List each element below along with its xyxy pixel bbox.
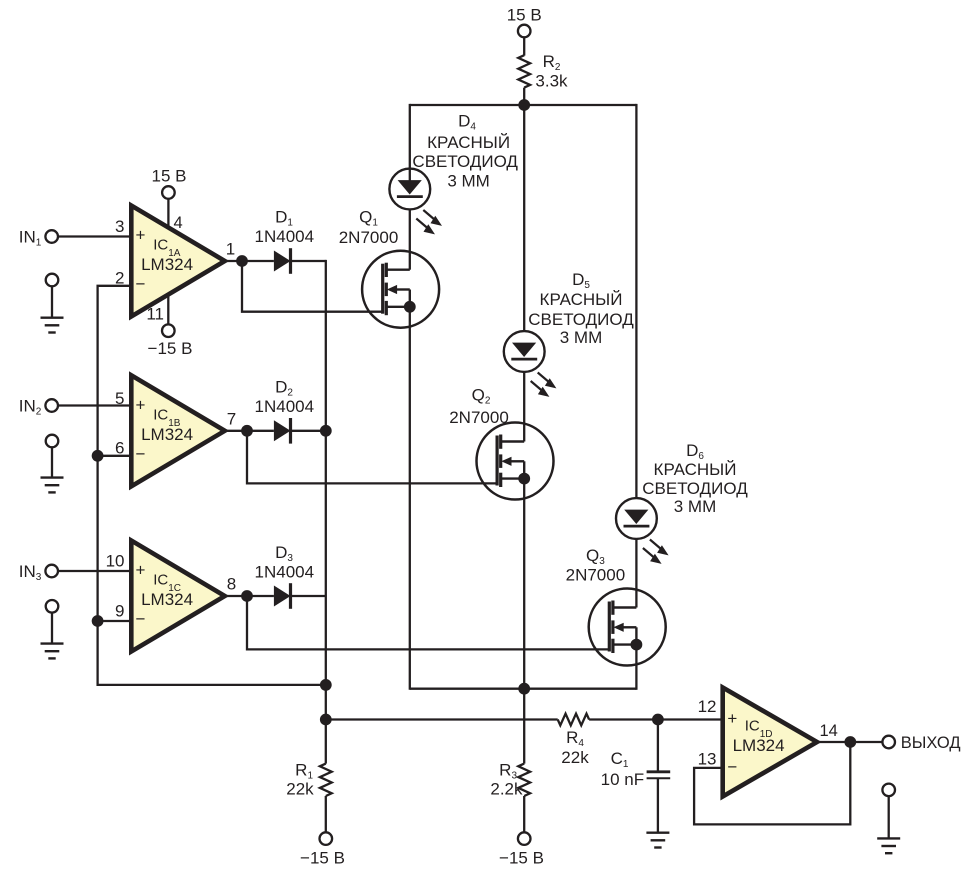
svg-text:11: 11 xyxy=(146,305,164,324)
node sources junction R3 xyxy=(518,683,530,695)
pin 12 label xyxy=(698,697,717,716)
ground terminal below IN3 xyxy=(46,600,59,644)
pin 14 label xyxy=(820,722,838,740)
svg-text:10: 10 xyxy=(106,552,125,571)
svg-text:СВЕТОДИОД: СВЕТОДИОД xyxy=(642,479,748,498)
svg-text:LM324: LM324 xyxy=(733,736,785,755)
pin 1 label xyxy=(226,240,235,259)
svg-text:СВЕТОДИОД: СВЕТОДИОД xyxy=(528,310,634,329)
label D6 xyxy=(686,441,704,462)
op-amp U1 IC1D xyxy=(723,688,817,797)
label D2 xyxy=(275,377,293,398)
diode D1 xyxy=(274,248,291,274)
LED D6 xyxy=(616,498,669,564)
svg-text:15 В: 15 В xyxy=(507,6,542,25)
label D4 3MM xyxy=(447,172,490,191)
node input terminal IN3 xyxy=(19,562,58,583)
svg-text:3: 3 xyxy=(115,217,124,236)
wire IC1A inverting feedback bus xyxy=(98,286,326,685)
pin 2 label xyxy=(115,268,124,287)
wire pin 4 supply xyxy=(167,199,169,229)
wire R2 to node xyxy=(523,88,525,105)
svg-text:+: + xyxy=(136,561,146,580)
svg-text:3 ММ: 3 ММ xyxy=(560,328,603,347)
svg-text:14: 14 xyxy=(820,722,838,740)
wire node to LED D5 xyxy=(523,105,525,331)
pin 3 label xyxy=(115,217,124,236)
svg-text:15 В: 15 В xyxy=(152,167,187,186)
svg-text:13: 13 xyxy=(698,749,717,768)
wire R4 to IC1D + xyxy=(589,718,723,720)
svg-text:КРАСНЫЙ: КРАСНЫЙ xyxy=(654,460,737,479)
wire output to D1 xyxy=(242,260,274,262)
diode D2 xyxy=(274,418,291,444)
wire feedback to IC1B - xyxy=(98,455,132,457)
label D4 KRASNYJ xyxy=(427,133,510,152)
svg-text:1N4004: 1N4004 xyxy=(255,397,315,416)
pin 11 label xyxy=(146,305,164,324)
svg-text:LM324: LM324 xyxy=(141,590,193,609)
node input terminal IN1 xyxy=(19,227,58,248)
svg-text:1N4004: 1N4004 xyxy=(255,563,315,582)
wire Q2 source to rail xyxy=(523,479,525,689)
pin 10 label xyxy=(106,552,125,571)
wire gate drop Q2 xyxy=(247,431,497,484)
transistor Q1 xyxy=(362,251,439,328)
node bus output junction xyxy=(320,714,332,726)
ground symbol IN3 xyxy=(41,644,64,659)
resistor R1 xyxy=(286,761,331,799)
pin 7 label xyxy=(227,409,236,428)
svg-text:−15 В: −15 В xyxy=(499,849,544,868)
node output terminal VYHOD xyxy=(882,734,960,752)
svg-text:3 ММ: 3 ММ xyxy=(447,172,490,191)
svg-text:КРАСНЫЙ: КРАСНЫЙ xyxy=(427,133,510,152)
node C1 junction xyxy=(652,714,664,726)
wire IC1D feedback loop xyxy=(694,742,850,824)
label Q1 xyxy=(359,208,378,229)
wire Q3 source down xyxy=(635,645,637,690)
label Q3 xyxy=(586,546,605,567)
svg-text:2: 2 xyxy=(115,268,124,287)
wire IN2 to IC1B + xyxy=(58,404,131,406)
node IC1B output junction xyxy=(241,425,253,437)
pin 5 label xyxy=(115,389,124,408)
svg-text:ВЫХОД: ВЫХОД xyxy=(901,734,961,752)
wire R3 to -15V xyxy=(523,796,525,832)
transistor Q3 xyxy=(589,589,666,666)
wire rail to LED D4 xyxy=(409,104,411,189)
node top rail junction xyxy=(518,99,530,111)
node input terminal IN2 xyxy=(19,397,58,418)
node -15V terminal pin11 xyxy=(148,324,193,358)
resistor R3 xyxy=(490,761,530,799)
pin 6 label xyxy=(115,439,124,458)
wire D6 to Q3 drain xyxy=(635,539,637,608)
wire D2 to bus xyxy=(291,430,326,432)
svg-text:−: − xyxy=(136,610,146,629)
svg-text:22k: 22k xyxy=(561,748,589,767)
node feedback IC1C junction xyxy=(92,615,104,627)
wire output to D3 xyxy=(247,595,274,597)
wire output to terminal xyxy=(850,741,882,743)
ground symbol output xyxy=(877,838,900,853)
wire 15V to R2 xyxy=(523,37,525,55)
svg-text:1: 1 xyxy=(226,240,235,259)
label D3 1N4004 xyxy=(255,563,315,582)
label D5 SVETODIOD xyxy=(528,310,634,329)
label D6 3MM xyxy=(674,497,717,516)
wire output to D2 xyxy=(247,430,274,432)
ground terminal below IN1 xyxy=(46,274,59,318)
label D1 xyxy=(275,208,293,229)
node IC1D output junction xyxy=(844,736,856,748)
label Q2 xyxy=(472,386,491,407)
node D2 bus junction xyxy=(320,425,332,437)
svg-text:3 ММ: 3 ММ xyxy=(674,497,717,516)
svg-text:−: − xyxy=(727,758,737,777)
svg-text:−: − xyxy=(136,275,146,294)
label D6 KRASNYJ xyxy=(654,460,737,479)
label D6 SVETODIOD xyxy=(642,479,748,498)
svg-text:LM324: LM324 xyxy=(141,425,193,444)
ground symbol C1 xyxy=(646,833,669,848)
label Q1 2N7000 xyxy=(339,228,399,247)
svg-text:12: 12 xyxy=(698,697,717,716)
svg-text:−15 В: −15 В xyxy=(300,849,345,868)
wire pin 11 supply xyxy=(167,295,169,325)
wire D4 to Q1 drain xyxy=(409,209,411,270)
svg-text:КРАСНЫЙ: КРАСНЫЙ xyxy=(540,290,623,309)
LED D5 xyxy=(504,331,557,397)
node -15V terminal R3 xyxy=(499,832,544,867)
wire IC1D output xyxy=(817,741,850,743)
node bus feedback junction xyxy=(320,679,332,691)
svg-text:2N7000: 2N7000 xyxy=(339,228,399,247)
node -15V terminal R1 xyxy=(300,832,345,867)
resistor R4 xyxy=(558,714,589,767)
wire D5 to Q2 drain xyxy=(523,372,525,442)
svg-text:+: + xyxy=(727,709,737,728)
wire top rail xyxy=(410,104,637,106)
label Q3 2N7000 xyxy=(566,566,626,585)
svg-text:3.3k: 3.3k xyxy=(535,72,568,91)
wire C1 to ground xyxy=(657,778,659,833)
wire junction to R3 xyxy=(523,689,525,764)
pin 4 label xyxy=(174,214,183,232)
wire IN1 to IC1A + xyxy=(58,235,131,237)
op-amp U1 IC1C xyxy=(131,541,225,652)
svg-text:8: 8 xyxy=(227,575,236,594)
svg-text:−: − xyxy=(136,445,146,464)
label D3 xyxy=(275,543,293,564)
svg-text:2N7000: 2N7000 xyxy=(449,408,509,427)
wire rail to LED D6 xyxy=(635,104,637,498)
label D4 xyxy=(458,112,476,133)
pin 8 label xyxy=(227,575,236,594)
label Q2 2N7000 xyxy=(449,408,509,427)
wire gate drop Q3 xyxy=(247,596,609,649)
wire D3 to bus xyxy=(291,595,326,597)
capacitor C1 xyxy=(601,749,671,789)
label D2 1N4004 xyxy=(255,397,315,416)
wire IC1A output xyxy=(225,260,242,262)
ground terminal below IN2 xyxy=(46,435,59,478)
svg-text:9: 9 xyxy=(115,601,124,620)
node IC1A output junction xyxy=(236,255,248,267)
svg-text:22k: 22k xyxy=(286,780,314,799)
label D1 1N4004 xyxy=(255,227,315,246)
op-amp U1 IC1B xyxy=(131,375,225,486)
svg-text:5: 5 xyxy=(115,389,124,408)
ground symbol IN2 xyxy=(41,478,64,493)
svg-text:+: + xyxy=(136,396,146,415)
svg-text:LM324: LM324 xyxy=(141,255,193,274)
ground symbol IN1 xyxy=(41,318,64,333)
node IC1C output junction xyxy=(241,590,253,602)
wire Q1 source to rail xyxy=(409,307,411,690)
ground terminal output xyxy=(882,784,895,839)
wire diode bus xyxy=(325,260,327,764)
svg-text:−15 В: −15 В xyxy=(148,339,193,358)
svg-text:СВЕТОДИОД: СВЕТОДИОД xyxy=(412,152,518,171)
wire bus to R4 xyxy=(326,718,558,720)
node feedback IC1B junction xyxy=(92,450,104,462)
label D5 xyxy=(572,270,590,291)
wire feedback to IC1C - xyxy=(98,620,132,622)
wire IC1B output xyxy=(225,430,247,432)
svg-text:4: 4 xyxy=(174,214,183,232)
wire R1 to -15V xyxy=(325,796,327,832)
node 15V supply terminal xyxy=(507,6,542,38)
svg-text:1N4004: 1N4004 xyxy=(255,227,315,246)
svg-text:2N7000: 2N7000 xyxy=(566,566,626,585)
diode D3 xyxy=(274,583,291,609)
label D4 SVETODIOD xyxy=(412,152,518,171)
svg-text:10 nF: 10 nF xyxy=(601,770,644,789)
resistor R2 xyxy=(518,52,568,91)
wire gate drop Q1 xyxy=(242,261,383,312)
wire D1 to bus xyxy=(291,260,326,262)
svg-text:+: + xyxy=(136,226,146,245)
pin 9 label xyxy=(115,601,124,620)
svg-text:7: 7 xyxy=(227,409,236,428)
wire IN3 to IC1C + xyxy=(58,570,131,572)
node 15V terminal pin4 xyxy=(152,167,187,199)
pin 13 label xyxy=(698,749,717,768)
label D5 3MM xyxy=(560,328,603,347)
transistor Q2 xyxy=(477,423,554,500)
wire IC1C output xyxy=(225,595,247,597)
LED D4 xyxy=(389,169,442,235)
op-amp U1 IC1A xyxy=(131,206,225,317)
svg-text:2.2k: 2.2k xyxy=(490,780,523,799)
label D5 KRASNYJ xyxy=(540,290,623,309)
wire MOSFET sources rail xyxy=(410,688,637,690)
wire junction to C1 xyxy=(657,720,659,771)
